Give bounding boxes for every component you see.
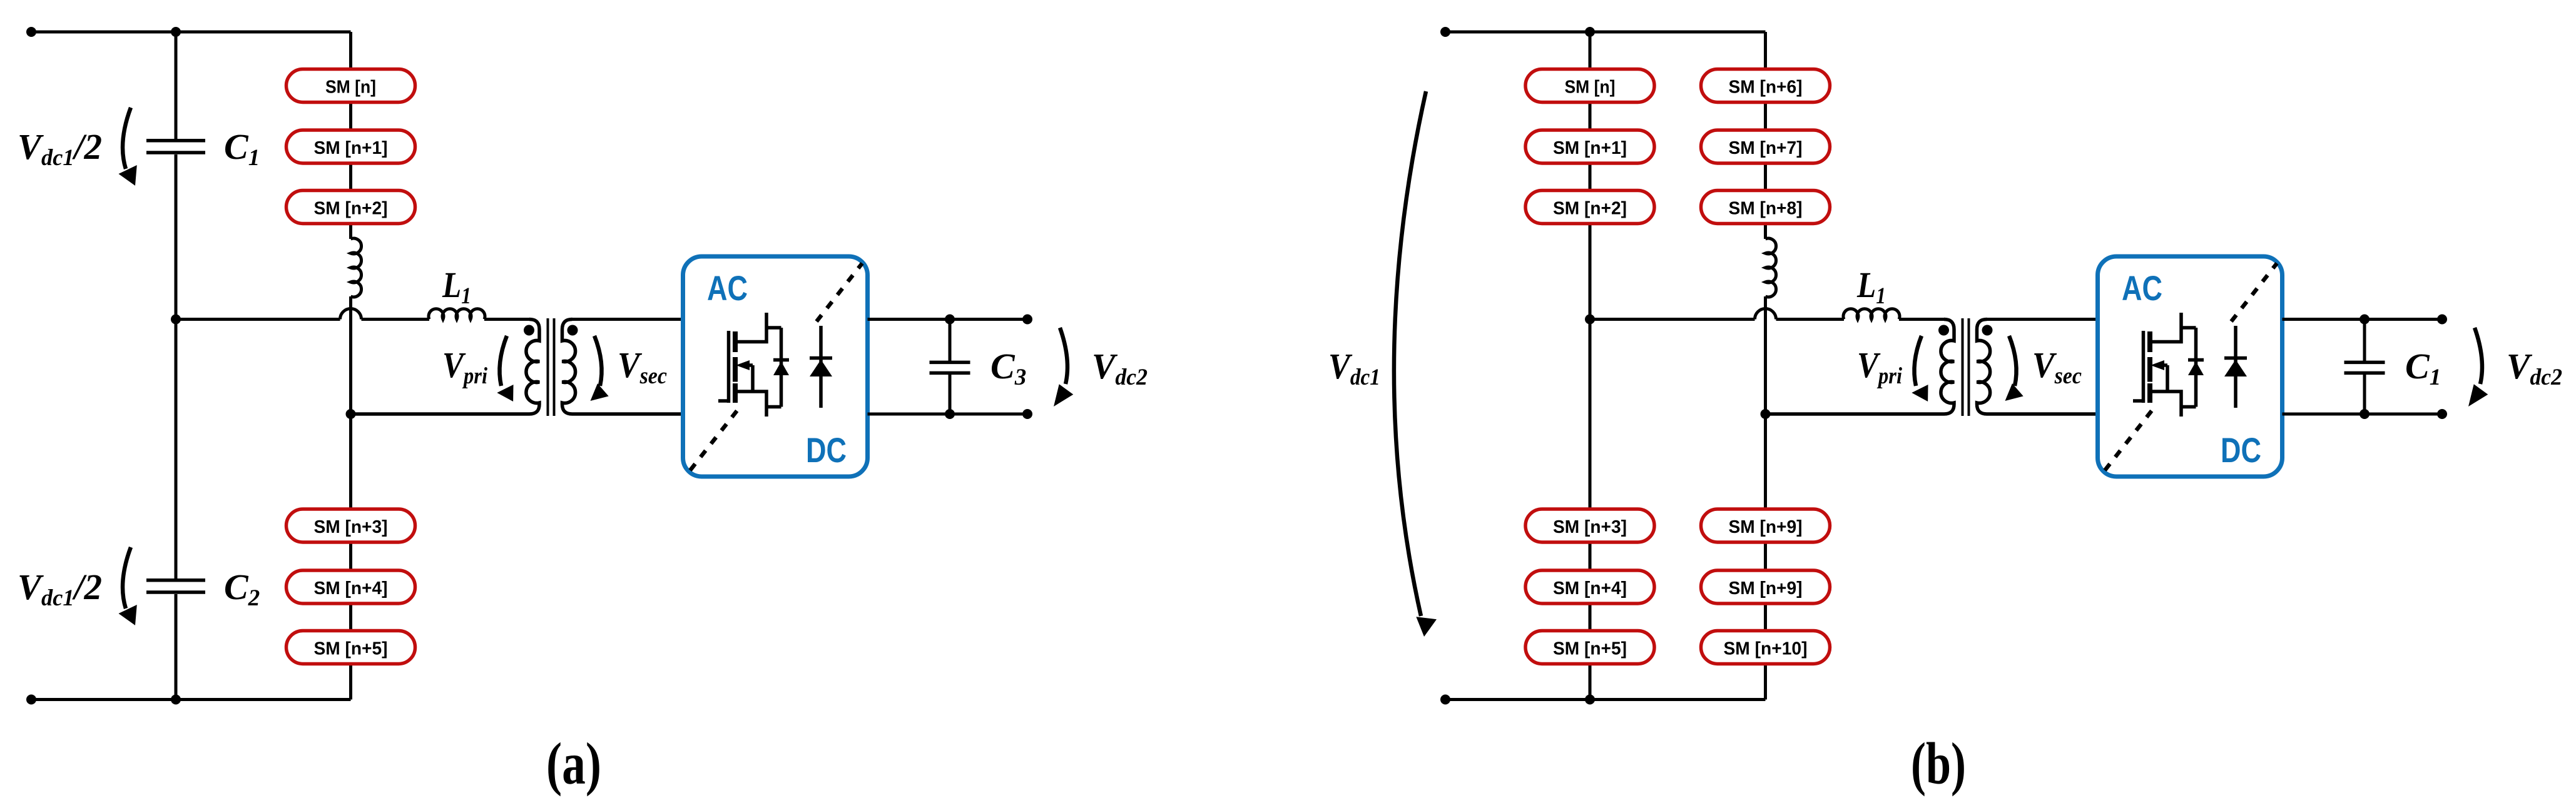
- submodule SM[n+3] (a): [287, 509, 415, 542]
- wire bottom bus (a): [31, 698, 351, 701]
- submodule SM[n+9] duplicate (b): [1701, 570, 1830, 604]
- node output bottom junction: [945, 409, 955, 419]
- svg-text:DC: DC: [2221, 430, 2261, 470]
- wire transformer bottom to arm junction: [351, 413, 531, 416]
- svg-text:L1: L1: [1856, 265, 1886, 309]
- wire mid horizontal to L1: [362, 318, 430, 321]
- svg-text:SM [n+2]: SM [n+2]: [314, 199, 388, 219]
- wire mid horizontal from left column (b): [1590, 318, 1755, 321]
- node top bus junction at capacitor branch: [171, 27, 181, 37]
- svg-text:SM [n+4]: SM [n+4]: [314, 578, 388, 598]
- svg-text:C1: C1: [224, 126, 260, 171]
- node output top junction: [2360, 315, 2370, 325]
- voltage arrow Vdc1 (b): [1394, 91, 1437, 637]
- submodule SM[n+1] (b): [1525, 130, 1654, 163]
- capacitor C3: [930, 320, 1027, 415]
- svg-text:AC: AC: [2122, 268, 2162, 308]
- wire transformer bottom to arm junction (b): [1766, 413, 1945, 416]
- wire converter output top: [2283, 318, 2443, 321]
- svg-text:L1: L1: [442, 265, 471, 309]
- wire secondary top to converter: [572, 318, 683, 321]
- transformer T1 core: [1963, 318, 1969, 416]
- transformer T1 secondary winding: [1977, 320, 2098, 415]
- svg-text:C2: C2: [224, 567, 260, 611]
- submodule SM[n+1] (a): [287, 130, 415, 163]
- node top-left terminal (b): [1440, 27, 1450, 37]
- svg-text:(b): (b): [1911, 730, 1966, 797]
- submodule SM[n+2] (b): [1525, 191, 1654, 224]
- wire capacitor branch upper: [175, 32, 178, 139]
- wire right SM column (b): [1764, 32, 1767, 239]
- wire secondary top to converter: [1987, 318, 2098, 321]
- wire SM arm column (a): [349, 32, 352, 239]
- node arm junction at transformer bottom: [346, 409, 356, 419]
- svg-text:SM [n+6]: SM [n+6]: [1729, 78, 1803, 98]
- svg-text:Vdc2: Vdc2: [2507, 346, 2562, 390]
- submodule SM[n] (a): [287, 69, 415, 103]
- svg-text:SM [n+10]: SM [n+10]: [1724, 639, 1808, 659]
- transformer T1 core: [548, 318, 554, 416]
- submodule SM[n+10] (b): [1701, 631, 1830, 664]
- submodule SM[n+5] (a): [287, 631, 415, 664]
- svg-text:Vpri: Vpri: [442, 345, 488, 389]
- wire converter output bottom: [2283, 413, 2443, 416]
- svg-text:Vsec: Vsec: [2032, 345, 2082, 389]
- svg-text:SM [n]: SM [n]: [1565, 78, 1616, 98]
- node output top junction: [945, 315, 955, 325]
- AC/DC converter U1 block: [2098, 256, 2283, 477]
- wire: [484, 318, 530, 321]
- svg-text:SM [n+1]: SM [n+1]: [314, 138, 388, 158]
- svg-text:Vsec: Vsec: [618, 345, 667, 389]
- voltage arrow Vsec (b): [2005, 336, 2024, 401]
- svg-text:SM [n+5]: SM [n+5]: [314, 639, 388, 659]
- submodule SM[n+7] (b): [1701, 130, 1830, 163]
- wire crossover hop (b): [1755, 309, 1776, 320]
- inductor L1: [429, 265, 485, 320]
- capacitor C2: [146, 567, 260, 611]
- voltage arrow Vsec (a): [591, 336, 609, 401]
- svg-text:SM [n+3]: SM [n+3]: [1553, 517, 1627, 537]
- wire top bus (b): [1445, 31, 1766, 34]
- node bottom bus junction left column (b): [1585, 695, 1595, 705]
- transformer T1 secondary winding: [563, 320, 683, 415]
- voltage arrow Vdc2 (b): [2468, 328, 2488, 407]
- node bottom-left terminal (b): [1440, 695, 1450, 705]
- AC/DC converter U1 block: [683, 256, 868, 477]
- svg-text:Vdc1/2: Vdc1/2: [18, 126, 102, 171]
- svg-text:Vpri: Vpri: [1857, 345, 1903, 389]
- submodule SM[n+8] (b): [1701, 191, 1830, 224]
- svg-text:SM [n+2]: SM [n+2]: [1553, 199, 1627, 219]
- voltage arrow Vdc1/2 lower: [119, 547, 137, 625]
- node bottom bus junction at capacitor branch: [171, 695, 181, 705]
- svg-text:Vdc1: Vdc1: [1328, 346, 1380, 390]
- svg-text:AC: AC: [707, 268, 748, 308]
- svg-text:SM [n+4]: SM [n+4]: [1553, 578, 1627, 598]
- svg-text:C3: C3: [990, 346, 1026, 390]
- node output terminal bottom: [2437, 409, 2447, 419]
- diode D1: [810, 326, 832, 408]
- node output terminal top: [2437, 315, 2447, 325]
- diode D1: [2224, 326, 2247, 408]
- svg-text:SM [n+1]: SM [n+1]: [1553, 138, 1627, 158]
- svg-text:C1: C1: [2405, 346, 2441, 390]
- svg-text:(a): (a): [546, 730, 601, 797]
- svg-text:Vdc2: Vdc2: [1092, 346, 1148, 390]
- node mid junction left column (b): [1585, 315, 1595, 325]
- submodule SM[n+4] (a): [287, 570, 415, 604]
- wire crossover hop (a): [340, 309, 362, 320]
- svg-text:DC: DC: [806, 430, 847, 470]
- inductor arm (a): [351, 238, 362, 297]
- wire converter output bottom: [868, 413, 1028, 416]
- node top bus junction left column (b): [1585, 27, 1595, 37]
- dashed diagonal (lower-left): [690, 409, 738, 470]
- dashed diagonal (lower-left): [2105, 409, 2153, 470]
- voltage arrow Vpri (b): [1912, 336, 1928, 402]
- submodule SM[n+9] (b): [1701, 509, 1830, 542]
- transformer T1 primary winding: [1766, 320, 1955, 415]
- svg-text:SM [n+7]: SM [n+7]: [1729, 138, 1803, 158]
- node top-left terminal: [26, 27, 36, 37]
- inductor L1: [1843, 265, 1900, 320]
- node output terminal bottom: [1022, 409, 1032, 419]
- wire capacitor branch middle: [175, 154, 178, 578]
- capacitor C1: [2344, 320, 2441, 415]
- node output bottom junction: [2360, 409, 2370, 419]
- svg-text:SM [n+9]: SM [n+9]: [1729, 517, 1803, 537]
- dashed diagonal (upper-right): [817, 263, 862, 321]
- wire capacitor branch lower: [175, 594, 178, 700]
- submodule SM[n+5] (b): [1525, 631, 1654, 664]
- svg-text:Vdc1/2: Vdc1/2: [18, 567, 102, 611]
- submodule SM[n] (b): [1525, 69, 1654, 103]
- wire top bus (a): [31, 31, 351, 34]
- wire converter output top: [868, 318, 1028, 321]
- voltage arrow Vpri (a): [497, 336, 513, 402]
- wire mid horizontal from capacitor midpoint: [176, 318, 340, 321]
- submodule SM[n+2] (a): [287, 191, 415, 224]
- transformer T1 primary winding: [351, 320, 540, 415]
- transistor Q1 (MOSFET with body diode): [718, 313, 789, 417]
- svg-text:SM [n+3]: SM [n+3]: [314, 517, 388, 537]
- voltage arrow Vdc2 (a): [1054, 328, 1073, 407]
- dashed diagonal (upper-right): [2231, 263, 2277, 321]
- node mid junction at capacitor branch: [171, 315, 181, 325]
- wire mid horizontal to L1 (b): [1776, 318, 1845, 321]
- node output terminal top: [1022, 315, 1032, 325]
- svg-text:SM [n+5]: SM [n+5]: [1553, 639, 1627, 659]
- capacitor C1: [146, 126, 260, 171]
- svg-text:SM [n]: SM [n]: [325, 78, 376, 98]
- wire left SM column (b): [1589, 32, 1592, 700]
- submodule SM[n+4] (b): [1525, 570, 1654, 604]
- inductor arm (b): [1766, 238, 1776, 297]
- transistor Q1 (MOSFET with body diode): [2133, 313, 2204, 417]
- voltage arrow Vdc1/2 upper: [119, 108, 137, 186]
- node bottom-left terminal: [26, 695, 36, 705]
- node arm junction at transformer bottom (b): [1761, 409, 1771, 419]
- submodule SM[n+6] (b): [1701, 69, 1830, 103]
- wire bottom bus (b): [1445, 698, 1766, 701]
- submodule SM[n+3] (b): [1525, 509, 1654, 542]
- svg-text:SM [n+8]: SM [n+8]: [1729, 199, 1803, 219]
- wire: [1899, 318, 1945, 321]
- svg-text:SM [n+9]: SM [n+9]: [1729, 578, 1803, 598]
